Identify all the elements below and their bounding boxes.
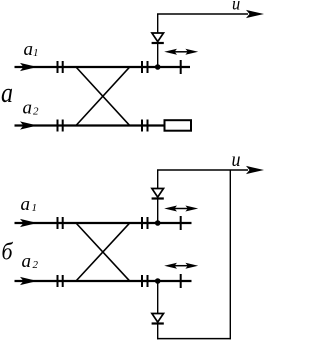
svg-text:a: a	[22, 251, 32, 272]
svg-text:u: u	[232, 0, 240, 14]
wire: bottom return, fig b	[157, 338, 231, 340]
wire: diode VD3 to bottom return	[157, 324, 159, 339]
diode VD2 (fig b upper)	[152, 189, 164, 198]
wire: line 1 of fig b	[15, 222, 192, 224]
double arrow (probe) fig a	[174, 51, 189, 53]
wire: line 2 of fig a	[15, 124, 165, 126]
svg-text:a: a	[23, 98, 33, 119]
svg-text:a: a	[21, 194, 31, 215]
end tick, line 1 fig b	[180, 216, 182, 230]
tick pair left, line 2 fig b	[57, 275, 59, 287]
svg-text:2: 2	[33, 105, 39, 117]
end tick, line 1 fig a	[180, 60, 182, 74]
double arrow (probe) lower fig b	[174, 265, 189, 267]
svg-text:а: а	[1, 77, 13, 109]
wire: output line u, fig a	[157, 13, 248, 15]
tick pair right, line 2 fig a	[141, 120, 143, 132]
input arrow a2 fig b	[20, 277, 37, 285]
tick pair right, line 1 fig a	[141, 61, 143, 73]
cross coupling X, fig a	[76, 67, 130, 126]
svg-text:1: 1	[33, 47, 39, 59]
input arrow a2	[20, 121, 37, 129]
tick pair left, line 1 fig a	[57, 61, 59, 73]
wire: vertical drop to lower diode, fig b	[157, 281, 159, 314]
wire: vertical riser to upper diode, fig b	[157, 170, 159, 223]
wire: right vertical return, fig b	[229, 170, 231, 339]
wire: line 1 of fig a	[15, 66, 191, 68]
end tick, line 2 fig b	[180, 274, 182, 288]
svg-text:1: 1	[32, 202, 38, 214]
junction dot, fig a	[155, 64, 161, 70]
tick pair right, line 2 fig b	[141, 275, 143, 287]
tick pair left, line 2 fig a	[57, 120, 59, 132]
svg-text:б: б	[2, 240, 14, 266]
wire: line 2 of fig b	[15, 280, 192, 282]
tick pair left, line 1 fig b	[57, 217, 59, 229]
tick pair right, line 1 fig b	[141, 217, 143, 229]
input arrow a1	[20, 63, 37, 71]
junction dot line1, fig b	[155, 220, 161, 226]
diode VD1 (fig a)	[152, 33, 164, 42]
input arrow a1 fig b	[20, 219, 37, 227]
diode VD3 (fig b lower)	[152, 314, 164, 323]
svg-text:u: u	[232, 149, 241, 171]
output arrowhead u, fig b	[246, 166, 264, 174]
matched load resistor, fig a	[165, 120, 192, 131]
svg-text:a: a	[24, 39, 34, 60]
wire: vertical riser to diode, fig a	[157, 14, 159, 67]
cross coupling X, fig b	[76, 223, 130, 281]
wire: output line u, fig b	[157, 169, 248, 171]
svg-text:2: 2	[33, 259, 39, 271]
double arrow (probe) upper fig b	[174, 208, 189, 210]
junction dot line2, fig b	[155, 278, 161, 284]
output arrowhead u, fig a	[246, 10, 264, 18]
